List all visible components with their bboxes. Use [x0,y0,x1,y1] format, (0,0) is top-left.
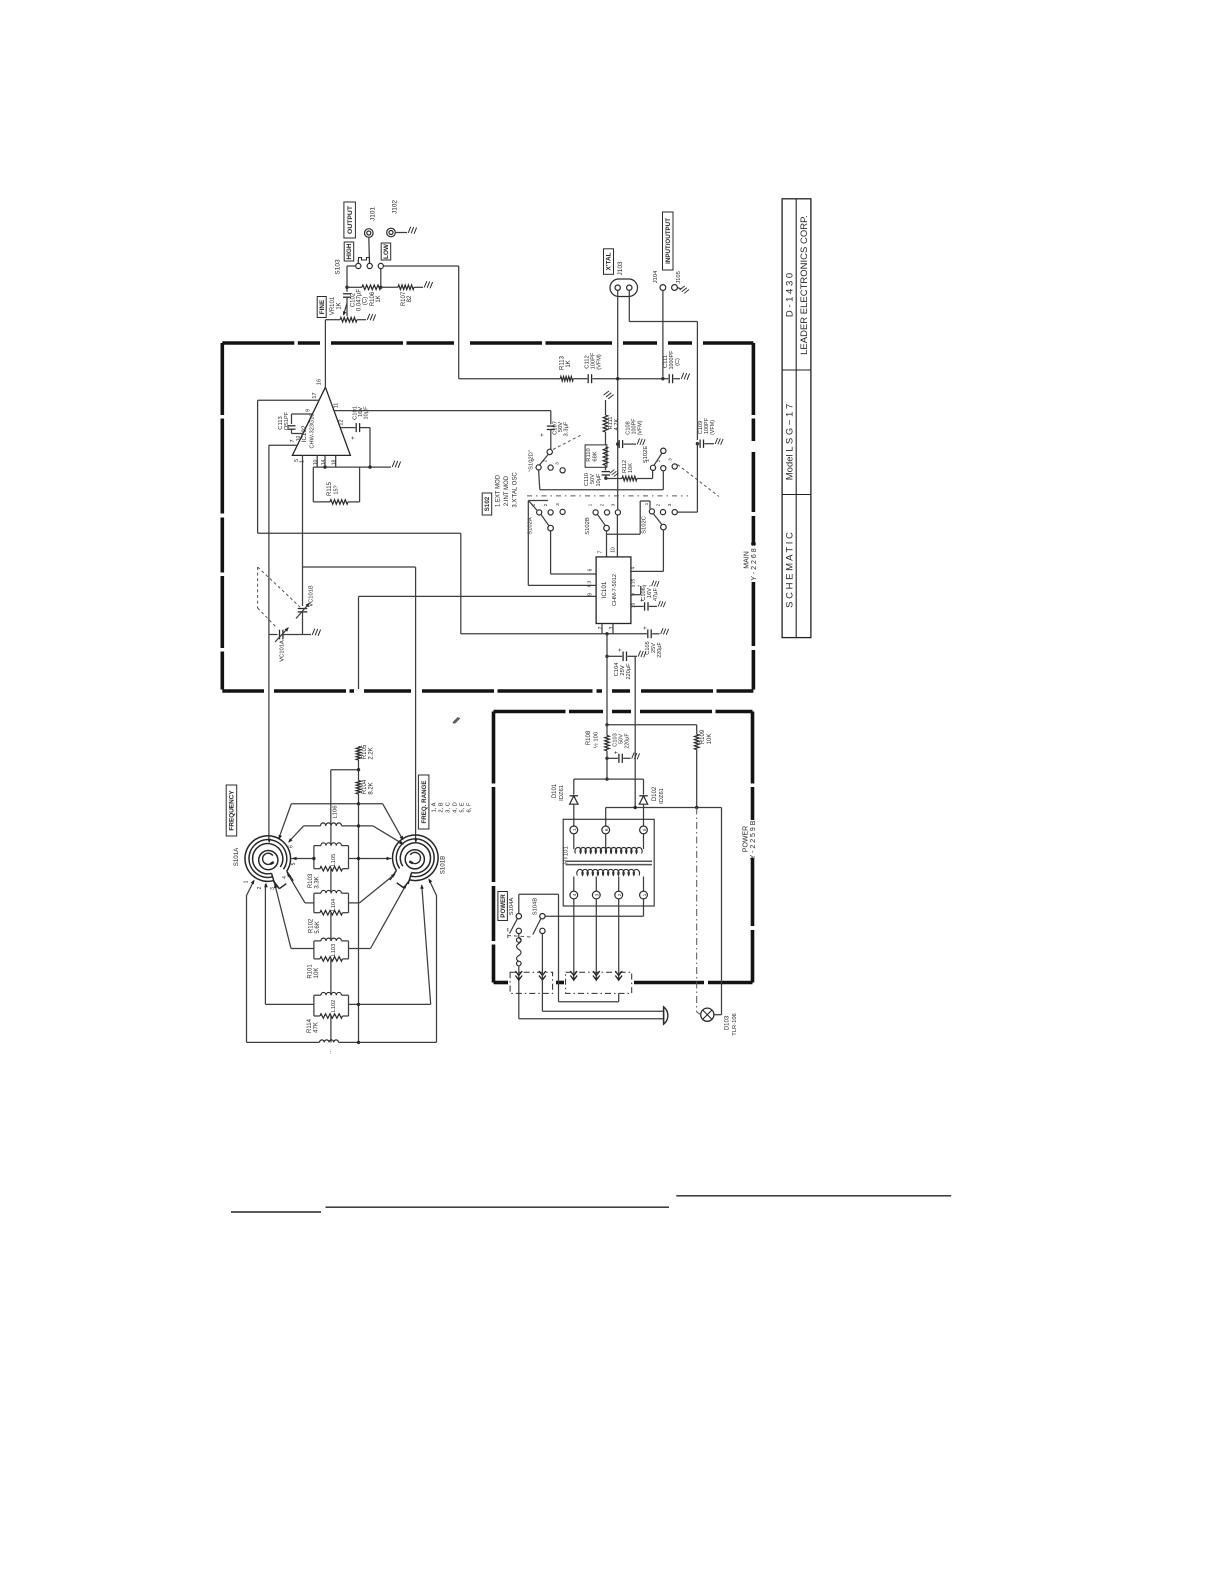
svg-text:Y - 2 2 6 8 C: Y - 2 2 6 8 C [751,541,758,580]
svg-text:D103: D103 [725,1015,731,1030]
svg-text:3: 3 [668,458,674,461]
svg-text:R113: R113 [560,355,566,370]
IC101 pin2/3 stubs [601,624,603,634]
svg-text:10µF: 10µF [596,473,602,486]
wire S102A arm down to IC101 pin6 [550,531,552,574]
svg-text:9: 9 [588,593,594,596]
wire S101A pin2 down to pair4 [264,884,266,1004]
op-amp IC102 [292,387,350,455]
wire C104 rail down into POWER [634,656,636,807]
svg-text:1K: 1K [376,295,382,302]
svg-text:S101A: S101A [233,847,240,866]
svg-text:3: 3 [270,887,276,890]
resistor R104 [358,760,360,781]
svg-text:2: 2 [257,886,263,889]
wire op-amp pin7 rail down to S101A [268,445,270,839]
svg-text:3.3K: 3.3K [315,876,321,888]
svg-text:3: 3 [611,503,617,506]
svg-text:J103: J103 [617,261,624,275]
IC101 box [596,557,631,624]
svg-text:1K: 1K [566,360,572,367]
wire S101A pin4 [305,902,314,904]
wire lamp left dash-dot from R109 [696,808,698,1013]
pin9 wire and capacitor C113 [292,413,313,415]
coil L106 [304,825,321,827]
svg-text:R101: R101 [308,964,314,979]
jack J101 [365,229,374,238]
svg-text:L106: L106 [333,806,339,819]
svg-text:15?: 15? [334,485,340,494]
varicap VC101A [269,634,278,636]
pin11 wire to C107 [334,410,551,412]
svg-text:220µF: 220µF [625,733,631,749]
left connector box [510,972,552,993]
svg-text:CHW-323G18: CHW-323G18 [310,413,316,448]
wire center tap rail [606,807,722,809]
bottom bus with coil L101 [247,1041,320,1043]
svg-text:(VFM): (VFM) [597,354,603,370]
svg-text:4.7K: 4.7K [614,418,620,430]
svg-text:14: 14 [321,460,327,466]
MAIN box top border [222,341,320,345]
MAIN box left border [221,343,225,690]
svg-text:8.3: 8.3 [587,580,593,587]
bottom feedback wire [461,633,613,635]
wires to AC plug [542,1010,663,1012]
wire pair3 right to S101B [349,948,371,950]
pin7 wire [269,444,297,446]
parallel pair L102 R114 [314,994,321,996]
svg-text:3, C: 3, C [446,802,452,813]
svg-text:5: 5 [642,828,647,831]
capacitor C103 to ground [605,757,608,760]
label LOW [381,243,391,260]
svg-text:2: 2 [656,459,662,462]
svg-text:D101: D101 [552,783,558,798]
diode D102 [643,779,645,794]
left feedback rail [257,400,259,533]
parallel pair L103 R101 [314,940,321,942]
switch S103 [356,263,361,268]
svg-text:IC101: IC101 [601,581,608,598]
wire S102E contact2 stub [662,471,664,490]
ground at J102 [407,225,418,235]
svg-text:4: 4 [282,876,288,879]
svg-text:1: 1 [642,893,647,896]
wire J102 to ground [395,232,407,234]
svg-text:6: 6 [604,828,609,831]
label HIGH [344,242,354,261]
svg-text:3.3µF: 3.3µF [564,421,570,436]
svg-text:6, F: 6, F [467,802,473,812]
svg-text:FREQ. RANGE: FREQ. RANGE [421,781,428,824]
svg-text:POWER: POWER [743,826,750,852]
label POWER switch [498,892,508,921]
svg-text:S102: S102 [484,496,491,511]
svg-text:2.2K: 2.2K [369,747,375,759]
switch S102B [593,510,598,515]
svg-text:6: 6 [289,845,295,848]
rotary switch S101A [245,836,291,882]
label FINE [317,297,326,318]
svg-text:1: 1 [572,828,577,831]
label X'TAL [604,249,614,274]
resistor R109 [696,725,698,734]
switch linkage dashes [508,936,532,938]
svg-text:R115: R115 [327,481,333,496]
svg-text:L103: L103 [331,944,337,956]
svg-text:(C): (C) [363,297,369,305]
svg-text:10: 10 [313,460,319,466]
wire S101A pin1 down to bottom bus [247,881,255,896]
label FREQ RANGE [418,775,429,829]
svg-text:R105: R105 [362,744,368,759]
MAIN box right border [752,343,756,441]
resistor R115 [312,467,314,502]
svg-text:1.EXT MOD: 1.EXT MOD [496,474,502,507]
POWER box left border [492,712,496,983]
svg-text:1: 1 [244,880,250,883]
svg-text:10K: 10K [628,463,634,473]
svg-text:5.6K: 5.6K [315,921,321,933]
rotary switch S101B [393,835,439,881]
svg-text:½ 100: ½ 100 [593,732,600,748]
rectifier bus [606,758,608,779]
parallel pair L105 R103 [314,845,321,847]
svg-text:2: 2 [617,893,622,896]
mechanical linkage dash row [527,495,688,497]
VR101 wiper arrow [344,303,348,315]
potentiometer VR101 [340,317,357,322]
svg-text:2.INT MOD: 2.INT MOD [504,475,510,506]
junction R108 top [605,723,608,726]
capacitor C111 to ground [663,378,668,380]
svg-text:+: + [643,626,649,630]
diode D101 [573,779,575,794]
capacitor C105 to ground [613,633,647,635]
svg-text:7: 7 [598,550,604,553]
capacitor C109 to ground [696,442,699,445]
svg-text:OUTPUT: OUTPUT [347,205,354,234]
svg-text:10µF: 10µF [364,406,370,420]
svg-text:TLR-106: TLR-106 [732,1013,738,1036]
wire J103 left pin down to S102B contact3 [617,290,619,509]
svg-text:L105: L105 [331,854,337,866]
svg-text:68K: 68K [593,451,599,461]
svg-text:VC101A: VC101A [280,640,286,662]
svg-text:8.2K: 8.2K [369,782,375,794]
IC101 pin19 wire and capacitor C106 [631,605,644,607]
svg-text:19: 19 [631,603,637,609]
svg-text:INPUT/OUTPUT: INPUT/OUTPUT [665,218,672,264]
svg-text:17: 17 [312,392,318,398]
capacitor C104 to ground [605,655,608,658]
svg-text:L102: L102 [331,1000,337,1012]
svg-text:10K: 10K [707,734,713,745]
svg-text:S102C: S102C [642,516,648,534]
svg-text:R110: R110 [586,448,592,461]
switch S102E [661,448,666,453]
rule line short left [231,1211,321,1213]
svg-text:VC101B: VC101B [309,585,315,607]
transformer bottom pins 4 3 2 1 [573,877,575,892]
svg-text:15: 15 [631,579,637,585]
svg-text:R108: R108 [586,730,592,745]
capacitor C108 to ground [616,442,619,445]
svg-text:1: 1 [588,503,594,506]
junction R106 left [345,286,348,289]
svg-text:47µF: 47µF [653,587,659,600]
svg-text:FINE: FINE [319,299,326,314]
transformer core [566,860,653,862]
resistor R108 [606,725,608,736]
parallel pair L104 R102 [314,892,321,894]
switch S104B [540,914,545,919]
svg-text:LOW: LOW [383,243,390,259]
wire S101A pin5 [292,858,314,860]
wire S104A top up to selector [518,894,520,913]
resistor R105 [356,746,361,760]
label INPUT/OUTPUT [663,212,674,270]
transformer PT101 box [563,819,654,906]
series chain verticals between pairs [330,826,332,846]
POWER box right border [751,712,755,821]
wire fuse down through connector [518,966,520,1019]
svg-text:CHM-7-5012: CHM-7-5012 [612,574,618,606]
resistor R110 with select box [585,445,607,467]
svg-text:2: 2 [543,459,549,462]
wire IC101 pin2 down to POWER [605,632,608,635]
svg-text:2: 2 [598,626,604,629]
svg-text:Model L S G ~ 1 7: Model L S G ~ 1 7 [785,404,796,480]
svg-text:(C): (C) [675,358,681,366]
svg-text:J105: J105 [676,271,682,284]
resistor R106 [347,286,362,288]
wire R junction to L106 [331,769,359,771]
svg-text:S104A: S104A [509,898,515,916]
svg-text:3: 3 [595,893,600,896]
op-amp ground bus [313,466,391,468]
label FREQUENCY [226,785,237,836]
linkage dashed S102E to S102C [678,465,720,497]
svg-text:R103: R103 [308,873,314,888]
pin12 wire and capacitor C101 [340,427,355,429]
INT MOD bus [540,489,664,491]
linkage dashes VC101 [257,567,259,608]
svg-text:S102E: S102E [643,446,649,464]
ground at J105 [677,288,681,290]
wire S102B arm down to IC101 pin7 [606,531,608,557]
svg-text:3: 3 [667,503,673,506]
svg-text:S103: S103 [335,259,342,275]
svg-text:10: 10 [611,547,617,553]
wire S101B outer down to bottom bus [429,879,437,895]
wire VR101 left to op-amp supply [325,319,340,321]
svg-text:R102: R102 [309,918,315,933]
svg-text:1: 1 [531,503,537,506]
op-amp base pin stubs [316,455,318,467]
svg-text:1, A: 1, A [432,802,438,812]
svg-text:3: 3 [609,626,615,629]
svg-text:…: … [327,1049,333,1054]
svg-text:1K: 1K [337,302,343,309]
jack J104 [660,285,666,291]
capacitor C110 [605,465,607,470]
svg-text:IDZ61: IDZ61 [659,788,665,804]
wire LOW contact down [380,269,382,288]
wire S102C arm down to IC101 pin4 [662,530,664,572]
svg-text:R114: R114 [307,1018,313,1033]
wire J103 rail to IC101 pin10 [616,515,618,557]
svg-text:(VFM): (VFM) [710,420,716,435]
connector J103 [610,279,638,297]
jack J105 [672,285,678,291]
svg-text:9: 9 [306,409,312,412]
switch S104A [516,914,521,919]
wire S103 common to right and down to R113 [383,265,458,267]
wire pair2 right to S101B [349,902,360,904]
wire pin1 to S104B [643,899,645,916]
svg-text:11: 11 [334,403,340,409]
svg-text:FREQUENCY: FREQUENCY [229,790,236,831]
voltage selector connector box [566,972,632,993]
capacitor C102 [343,293,351,295]
svg-text:VR101: VR101 [330,296,336,315]
ground above R111 [603,390,614,400]
svg-text:2: 2 [543,503,549,506]
transformer secondary winding [573,834,575,849]
switch S102C [649,509,654,514]
wire top rail into S101B [414,839,418,844]
svg-text:“S102D”: “S102D” [529,450,535,472]
svg-text:4, D: 4, D [453,802,459,813]
svg-text:2: 2 [656,503,662,506]
wire to R109 [607,724,697,726]
fuse [518,934,520,938]
label S102 with mode list [482,493,492,515]
POWER box top border [494,710,604,714]
svg-text:3: 3 [555,462,561,465]
IC101 pin15 dashed ground [631,585,651,587]
svg-text:LEADER ELECTRONICS CORP.: LEADER ELECTRONICS CORP. [799,215,810,355]
wire pin17 to left rail [258,399,320,401]
svg-text:10K: 10K [314,968,320,979]
wire pair4 right to S101B [349,1003,431,1005]
POWER box bottom border [494,981,509,985]
varicap VC101B [298,608,308,610]
wire L106 left diagonal to S101A pin6 [289,826,304,842]
pin5/1 rail down to VC101B [302,455,304,606]
wire pair1 right to S101B [349,858,392,860]
svg-text:7: 7 [290,439,296,442]
resistor R112 [606,478,622,480]
svg-text:+: + [351,436,357,440]
rule line middle [326,1206,670,1208]
svg-text:+: + [614,750,620,754]
svg-text:2: 2 [600,503,606,506]
wire top rail into S101A [267,839,271,844]
label OUTPUT [344,202,356,238]
svg-text:IDZ61: IDZ61 [559,785,565,801]
ground after VR101 [366,312,377,322]
svg-text:Y - 2 2 5 9 B: Y - 2 2 5 9 B [750,820,757,859]
wire S102A contact1 rail to IC101 pin8.3 [527,501,529,586]
svg-text:D102: D102 [652,786,658,801]
svg-text:X’TAL: X’TAL [606,252,613,270]
svg-text:R104: R104 [362,779,368,794]
svg-text:18: 18 [332,460,338,466]
svg-text:5, E: 5, E [460,802,466,812]
svg-text:QS1PF: QS1PF [284,411,290,430]
page mark [453,718,459,724]
wire J104 down [662,290,664,377]
svg-text:12: 12 [339,419,345,425]
svg-text:1: 1 [644,502,650,505]
svg-text:6: 6 [588,568,594,571]
svg-text:S102B: S102B [585,517,591,535]
switch S102D [547,449,552,454]
svg-text:4: 4 [631,566,637,569]
wire S101A pin3 [291,948,314,950]
svg-text:5: 5 [291,862,297,865]
svg-text:4: 4 [572,893,577,896]
wire C109 rail down to S102C contact3 [696,444,698,512]
svg-text:MAIN: MAIN [744,551,751,569]
svg-text:J101: J101 [370,207,377,221]
upper range wire (outer taps) [291,803,382,805]
svg-text:S C H E M A T I C: S C H E M A T I C [785,532,796,608]
ground after R107 [414,286,423,288]
wire to S101B (freq rail right) [303,566,416,568]
svg-text:2, B: 2, B [439,802,445,812]
wire J103 right pin down/right [628,290,630,321]
wire lamp right up to center tap rail [721,808,723,1015]
svg-text:J104: J104 [653,270,659,283]
resistor R107 [381,286,398,288]
MAIN box bottom border [222,689,264,693]
wire IC101 pin9 to freq center rail [359,595,597,597]
svg-text:10: 10 [296,436,302,442]
svg-text:+: + [539,433,546,437]
wires transformer bottom pins down with plug arrows [573,899,575,980]
wire S102D contact1 down to INT bus [539,470,540,490]
svg-text:220µF: 220µF [657,642,663,658]
svg-text:J102: J102 [392,200,399,214]
svg-text:L104: L104 [331,899,337,911]
wire S102C contact1 loop [640,500,650,502]
switch S102A [528,501,537,511]
svg-text:D - 1 4 3 0: D - 1 4 3 0 [785,273,796,317]
svg-text:47K: 47K [314,1022,320,1033]
svg-text:POWER: POWER [500,894,507,918]
svg-text:S104B: S104B [533,898,539,916]
AC plug [664,1007,668,1024]
svg-text:3.X’TAL OSC: 3.X’TAL OSC [513,472,519,508]
svg-text:S101B: S101B [440,856,447,875]
IC101 pin5 wire [631,594,641,596]
capacitor C112 [573,378,587,380]
rule line right [676,1195,951,1197]
svg-text:R109: R109 [700,729,706,744]
svg-text:HIGH: HIGH [346,243,353,259]
wire S103 left contact down [357,260,359,263]
resistor R113 [459,378,561,380]
wire J101 to S103 [368,237,371,263]
svg-text:+: + [618,648,624,652]
svg-text:16: 16 [317,379,323,385]
lamp D103 [701,1008,714,1021]
jack J102 [387,228,396,237]
